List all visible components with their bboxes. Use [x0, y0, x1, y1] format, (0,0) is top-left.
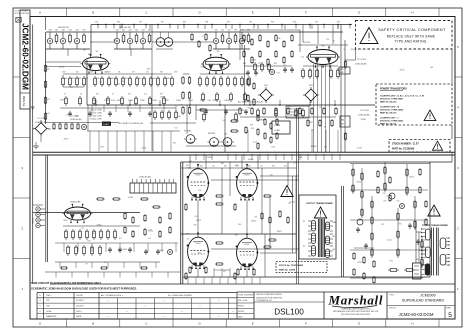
svg-text:CON4: CON4 [128, 100, 133, 102]
svg-text:C42: C42 [423, 221, 426, 223]
svg-text:C94: C94 [277, 73, 280, 75]
svg-text:C50: C50 [214, 30, 217, 32]
svg-text:R62: R62 [221, 163, 224, 165]
svg-text:R71: R71 [161, 22, 164, 24]
svg-text:REL: REL [340, 69, 343, 71]
svg-text:R35: R35 [251, 128, 254, 130]
svg-text:C33: C33 [68, 30, 71, 32]
svg-text:C13: C13 [117, 83, 120, 85]
svg-text:C67: C67 [99, 81, 102, 83]
svg-text:V44: V44 [288, 106, 291, 108]
svg-text:1K14: 1K14 [111, 100, 115, 102]
svg-text:C9: C9 [112, 94, 114, 96]
svg-text:x: x [145, 306, 146, 308]
svg-text:CMD: CMD [46, 295, 51, 297]
svg-text:470p6: 470p6 [350, 49, 355, 51]
svg-text:C66: C66 [121, 81, 124, 83]
svg-text:R15: R15 [96, 94, 99, 96]
svg-text:470p11: 470p11 [361, 119, 367, 121]
svg-text:V85: V85 [398, 224, 401, 226]
svg-text:E: E [252, 11, 254, 15]
svg-text:C55: C55 [212, 166, 215, 168]
svg-text:22n5: 22n5 [147, 69, 151, 71]
svg-text:BR2: BR2 [309, 85, 313, 87]
svg-text:PART No. GC180099: PART No. GC180099 [392, 147, 415, 150]
svg-text:TITLE: TITLE [389, 294, 395, 296]
svg-text:POWER TRANSISTORS: POWER TRANSISTORS [380, 88, 407, 91]
svg-text:R85: R85 [88, 54, 91, 56]
svg-text:THIS CIRCUIT IS FOR PARTS LIST: THIS CIRCUIT IS FOR PARTS LIST PURPOSES … [31, 281, 102, 285]
svg-text:C38: C38 [205, 22, 208, 24]
svg-text:C42: C42 [128, 30, 131, 32]
svg-text:x: x [127, 311, 128, 313]
svg-text:JK3: JK3 [224, 134, 227, 136]
svg-text:E: E [252, 322, 254, 326]
svg-text:R40: R40 [238, 224, 241, 226]
svg-text:R73: R73 [293, 22, 296, 24]
svg-text:10K29: 10K29 [251, 59, 256, 61]
svg-text:x: x [200, 306, 201, 308]
svg-text:2K230: 2K230 [207, 157, 212, 159]
svg-text:R = THROUGH PLATED: R = THROUGH PLATED [168, 294, 192, 297]
svg-text:B: B [92, 11, 94, 15]
svg-text:1n11: 1n11 [67, 246, 71, 248]
svg-text:68K19: 68K19 [60, 99, 65, 101]
svg-text:4n720: 4n720 [63, 139, 68, 141]
svg-text:C90: C90 [254, 217, 257, 219]
svg-text:F: F [305, 322, 307, 326]
svg-text:R17: R17 [160, 94, 163, 96]
svg-text:C10: C10 [193, 196, 196, 198]
svg-text:C55: C55 [247, 30, 250, 32]
svg-text:D57: D57 [223, 271, 226, 273]
svg-text:8203: 8203 [64, 220, 68, 222]
svg-text:DATE: DATE [76, 315, 82, 318]
svg-text:P2: P2 [303, 246, 305, 248]
svg-text:2K28: 2K28 [358, 262, 362, 264]
svg-text:ALL OTHER HOLES =: ALL OTHER HOLES = [101, 294, 124, 297]
svg-text:CON2: CON2 [104, 100, 109, 102]
svg-text:D71: D71 [70, 87, 73, 89]
svg-text:D98: D98 [100, 147, 103, 149]
svg-text:R60: R60 [83, 49, 86, 51]
svg-text:STOCK No. TXPW-00001: STOCK No. TXPW-00001 [380, 98, 404, 100]
svg-text:D16: D16 [430, 67, 433, 69]
svg-text:IF IN DOUBT ASK: IF IN DOUBT ASK [15, 12, 30, 15]
svg-text:CON7: CON7 [164, 100, 169, 102]
svg-text:R11: R11 [72, 78, 75, 80]
svg-text:82079: 82079 [357, 182, 362, 184]
svg-text:82079: 82079 [196, 220, 201, 222]
svg-text:C15: C15 [258, 63, 261, 65]
svg-text:V4 ECC83: V4 ECC83 [70, 202, 81, 204]
svg-text:C35: C35 [82, 30, 85, 32]
svg-text:D97: D97 [383, 193, 386, 195]
svg-text:4n794: 4n794 [400, 70, 405, 72]
svg-text:C8: C8 [80, 94, 82, 96]
svg-text:BAL: BAL [341, 119, 344, 122]
svg-text:P1: P1 [303, 221, 305, 223]
svg-text:CON9: CON9 [200, 100, 205, 102]
svg-text:CON3: CON3 [116, 100, 121, 102]
svg-text:JCM2-EL-BB: JCM2-EL-BB [139, 177, 151, 179]
svg-text:C18: C18 [396, 200, 399, 202]
svg-text:R2: R2 [48, 69, 50, 71]
svg-text:JCM2-60-02.DGM: JCM2-60-02.DGM [399, 312, 434, 317]
svg-text:82039: 82039 [308, 122, 313, 124]
svg-text:(JCM2-EL-4B): (JCM2-EL-4B) [70, 119, 82, 121]
svg-text:C12: C12 [81, 228, 84, 230]
svg-text:CON5: CON5 [140, 100, 145, 102]
svg-text:D75: D75 [187, 238, 190, 240]
svg-text:CON3-4 CON6: CON3-4 CON6 [90, 116, 102, 118]
svg-text:R95: R95 [194, 225, 197, 227]
svg-text:STOCK NUMBER : CLET: STOCK NUMBER : CLET [392, 144, 419, 146]
svg-text:DSL100: DSL100 [274, 308, 304, 317]
svg-text:D94: D94 [198, 190, 201, 192]
svg-text:SET: SET [341, 124, 344, 126]
svg-text:C80: C80 [208, 100, 211, 102]
svg-text:1K34: 1K34 [298, 157, 302, 159]
svg-text:D33: D33 [198, 253, 201, 255]
svg-text:F: F [305, 11, 307, 15]
svg-text:D49: D49 [223, 120, 226, 122]
svg-text:1M91: 1M91 [159, 250, 163, 252]
svg-text:C39: C39 [249, 22, 252, 24]
svg-text:H: H [411, 11, 413, 15]
svg-text:R90: R90 [200, 166, 203, 168]
svg-text:D15: D15 [309, 70, 312, 72]
svg-text:1M18: 1M18 [123, 249, 127, 251]
svg-text:R54: R54 [195, 216, 198, 218]
svg-text:14/11/97: 14/11/97 [76, 306, 85, 308]
svg-text:V2: V2 [343, 49, 345, 51]
svg-text:820: 820 [76, 72, 79, 74]
svg-text:V92: V92 [381, 224, 384, 226]
svg-text:C54: C54 [240, 30, 243, 32]
svg-text:x: x [164, 316, 165, 318]
svg-text:C80: C80 [178, 116, 181, 118]
svg-text:STOCK No. TXOP-00088: STOCK No. TXOP-00088 [279, 265, 304, 267]
svg-text:470p12: 470p12 [200, 66, 206, 68]
svg-text:C20: C20 [326, 39, 329, 41]
svg-text:R92: R92 [248, 166, 251, 168]
svg-text:R17: R17 [119, 238, 122, 240]
svg-text:15/5/98: 15/5/98 [76, 295, 84, 297]
svg-text:COUNTRY 100V~: M: COUNTRY 100V~: M [380, 107, 399, 109]
svg-text:C57: C57 [260, 166, 263, 168]
svg-text:H: H [411, 322, 413, 326]
svg-text:CON2: CON2 [128, 197, 133, 199]
svg-text:TOTAL THICKNESS: TOTAL THICKNESS [238, 294, 254, 297]
svg-text:R36: R36 [87, 240, 90, 242]
svg-text:CON6: CON6 [152, 100, 157, 102]
svg-text:TO CON.1: TO CON.1 [357, 59, 367, 61]
svg-text:R3: R3 [48, 99, 50, 101]
svg-text:2K2: 2K2 [146, 72, 149, 74]
svg-text:C51: C51 [221, 30, 224, 32]
svg-text:x: x [219, 300, 220, 302]
svg-text:R92: R92 [390, 260, 393, 262]
svg-text:UNLESS OTHERWISE STATED: UNLESS OTHERWISE STATED [256, 293, 283, 296]
svg-text:C7: C7 [64, 94, 66, 96]
svg-text:ALL 4B2B7 2K (JCM2-EL)-4B: ALL 4B2B7 2K (JCM2-EL)-4B [119, 122, 144, 125]
svg-text:D17: D17 [283, 65, 286, 67]
svg-text:C44: C44 [141, 30, 144, 32]
svg-text:R4: R4 [65, 78, 67, 80]
svg-text:x: x [182, 311, 183, 313]
svg-text:x: x [233, 311, 234, 313]
svg-text:5: 5 [448, 312, 452, 319]
svg-text:CON10: CON10 [212, 100, 218, 102]
svg-text:C40: C40 [315, 22, 318, 24]
svg-text:D77: D77 [149, 229, 152, 231]
svg-text:CON1: CON1 [92, 100, 97, 102]
svg-text:R54: R54 [173, 143, 176, 145]
svg-text:82013: 82013 [160, 96, 165, 98]
svg-text:10K64: 10K64 [96, 225, 101, 227]
svg-text:HT1: HT1 [183, 22, 186, 24]
svg-text:FX SEND: FX SEND [184, 131, 192, 133]
svg-text:C32: C32 [61, 30, 64, 32]
svg-text:R16: R16 [128, 94, 131, 96]
svg-text:V46: V46 [270, 175, 273, 177]
svg-text:C87: C87 [288, 203, 291, 205]
svg-text:DWG.No.: DWG.No. [22, 96, 26, 107]
svg-text:R38: R38 [277, 38, 280, 40]
svg-text:C74: C74 [301, 56, 304, 58]
svg-text:C37: C37 [139, 22, 142, 24]
svg-text:BR1: BR1 [264, 85, 268, 87]
svg-text:R94: R94 [284, 166, 287, 168]
svg-text:1/8/97: 1/8/97 [76, 311, 82, 313]
svg-text:CON1-2 CON6: CON1-2 CON6 [90, 110, 102, 112]
svg-text:V3: V3 [324, 126, 326, 128]
svg-text:CIN: CIN [46, 306, 50, 308]
svg-text:C52: C52 [319, 107, 322, 109]
svg-text:FINISH: FINISH [238, 306, 244, 308]
svg-text:D29: D29 [421, 265, 424, 267]
svg-text:DIAMETER: DIAMETER [46, 315, 57, 318]
svg-text:R61 10K 5W: R61 10K 5W [120, 27, 131, 29]
svg-text:PART No. DE-100: PART No. DE-100 [380, 100, 397, 103]
svg-text:29/3/97: 29/3/97 [238, 311, 244, 313]
svg-text:C36: C36 [95, 22, 98, 24]
svg-text:JCM2-63-BB: JCM2-63-BB [355, 64, 367, 66]
svg-text:R9: R9 [85, 263, 87, 265]
svg-text:REPLACE ONLY WITH SAME: REPLACE ONLY WITH SAME [387, 34, 436, 38]
svg-text:C40: C40 [115, 30, 118, 32]
svg-text:R6: R6 [92, 233, 94, 235]
svg-text:82061: 82061 [277, 231, 282, 233]
svg-text:© MARSHALL AMPLIFICATION PLC: © MARSHALL AMPLIFICATION PLC [340, 307, 371, 310]
svg-text:B: B [92, 322, 94, 326]
svg-text:R72: R72 [227, 22, 230, 24]
svg-text:13/10/97: 13/10/97 [76, 300, 85, 302]
svg-text:R2: R2 [333, 41, 335, 43]
svg-text:470p85: 470p85 [248, 159, 254, 161]
svg-text:x: x [219, 316, 220, 318]
svg-text:C76: C76 [148, 238, 151, 240]
svg-text:C59: C59 [383, 201, 386, 203]
svg-text:2K251: 2K251 [409, 177, 414, 179]
svg-text:HT2: HT2 [271, 22, 274, 24]
svg-text:V41: V41 [179, 104, 182, 106]
svg-text:SUPERLEAD STANDARD: SUPERLEAD STANDARD [402, 299, 445, 303]
svg-text:Marshall: Marshall [328, 293, 383, 308]
svg-text:TOLERANCES ±0.5: TOLERANCES ±0.5 [256, 299, 272, 302]
svg-text:R28: R28 [250, 125, 253, 127]
svg-text:OUTPUT TRANSFORMER: OUTPUT TRANSFORMER [306, 202, 333, 205]
svg-text:C2: C2 [201, 36, 203, 38]
svg-text:CON2-3 CON6: CON2-3 CON6 [90, 113, 102, 115]
svg-text:RETURN: RETURN [208, 133, 216, 135]
svg-text:R93: R93 [272, 166, 275, 168]
svg-text:C31: C31 [55, 30, 58, 32]
svg-text:R7: R7 [86, 78, 88, 80]
svg-text:A: A [39, 11, 41, 15]
svg-text:R9: R9 [79, 78, 81, 80]
svg-text:R87: R87 [247, 107, 250, 109]
svg-text:JCM2-63-BB: JCM2-63-BB [358, 115, 370, 117]
svg-text:C45: C45 [148, 30, 151, 32]
svg-text:R60 10K 5W: R60 10K 5W [58, 27, 69, 29]
svg-text:R77: R77 [114, 40, 117, 42]
svg-text:R70: R70 [117, 22, 120, 24]
svg-text:10K1: 10K1 [416, 259, 420, 261]
svg-text:R30 100K: R30 100K [303, 42, 311, 44]
svg-text:TEL 01908 375411 FAX 01908 37: TEL 01908 375411 FAX 01908 376118 [341, 313, 370, 316]
svg-text:FIRST AVENUE, BLETCHLEY, MILTO: FIRST AVENUE, BLETCHLEY, MILTON KEYNES, … [333, 310, 379, 313]
svg-text:D58: D58 [114, 78, 117, 80]
svg-text:C56: C56 [236, 166, 239, 168]
svg-text:MIN 1.6 MM: MIN 1.6 MM [238, 300, 248, 302]
svg-text:SMP: SMP [340, 72, 343, 74]
svg-text:TO CON.1: TO CON.1 [360, 110, 370, 112]
svg-text:C30: C30 [48, 30, 51, 32]
svg-text:C53: C53 [234, 30, 237, 32]
svg-text:A: A [39, 322, 41, 326]
svg-text:CLNE: CLNE [46, 311, 52, 313]
svg-text:C52: C52 [227, 30, 230, 32]
svg-text:C50: C50 [174, 127, 177, 129]
svg-text:C41: C41 [122, 30, 125, 32]
svg-text:C10: C10 [144, 94, 147, 96]
svg-text:C79: C79 [66, 115, 69, 117]
svg-text:STOCK No. TXPW-00002: STOCK No. TXPW-00002 [380, 110, 404, 112]
svg-text:PART No. C9878: PART No. C9878 [279, 268, 296, 271]
svg-text:CON4-5 CON6: CON4-5 CON6 [90, 119, 102, 121]
svg-text:1n90: 1n90 [271, 146, 275, 148]
svg-text:0.1u9: 0.1u9 [253, 142, 257, 144]
svg-text:CON8: CON8 [188, 100, 193, 102]
svg-text:V90: V90 [189, 161, 192, 163]
svg-text:COUNTRY 120V~: J: COUNTRY 120V~: J [380, 118, 399, 120]
svg-text:x: x [108, 300, 109, 302]
svg-text:V85: V85 [103, 262, 106, 264]
svg-text:R25: R25 [274, 63, 277, 65]
svg-text:x: x [108, 316, 109, 318]
svg-text:SHEET: SHEET [446, 308, 451, 310]
svg-text:ALL 4B2B7 2K (JCM2-EL)-4B: ALL 4B2B7 2K (JCM2-EL)-4B [238, 101, 264, 104]
svg-text:0.1u37: 0.1u37 [357, 147, 362, 149]
svg-text:D98: D98 [204, 61, 207, 63]
svg-text:DRG No.: DRG No. [389, 308, 397, 310]
svg-text:SAFETY CRITICAL COMPONENT: SAFETY CRITICAL COMPONENT [378, 28, 446, 32]
svg-text:JCM2000: JCM2000 [420, 293, 435, 297]
svg-text:PART No. DE-170: PART No. DE-170 [380, 112, 397, 115]
svg-text:V50: V50 [310, 61, 313, 63]
svg-text:C43: C43 [135, 30, 138, 32]
svg-text:C53: C53 [386, 196, 389, 198]
svg-text:R91: R91 [224, 166, 227, 168]
svg-text:R74: R74 [337, 22, 340, 24]
svg-text:CON6: CON6 [33, 217, 35, 224]
svg-text:CON11: CON11 [224, 100, 230, 102]
svg-text:V31: V31 [47, 113, 50, 115]
svg-text:C34: C34 [75, 30, 78, 32]
svg-text:PART No. DE-171: PART No. DE-171 [380, 122, 397, 125]
svg-text:R6: R6 [223, 67, 225, 69]
svg-text:C88: C88 [75, 116, 78, 118]
svg-text:L-CAN: L-CAN [274, 129, 280, 132]
svg-text:JCM2-60-02.DGM: JCM2-60-02.DGM [20, 23, 29, 90]
svg-text:2K220: 2K220 [251, 221, 256, 223]
svg-text:C15: C15 [357, 277, 360, 279]
svg-text:SCHEMATIC JCM2-60-02.DGM SHOUL: SCHEMATIC JCM2-60-02.DGM SHOULD BE USED … [31, 286, 137, 290]
svg-text:CON8: CON8 [176, 100, 181, 102]
svg-text:0.1u21: 0.1u21 [387, 240, 392, 242]
svg-text:TYPE AND RATING.: TYPE AND RATING. [394, 40, 427, 44]
svg-text:x: x [164, 300, 165, 302]
svg-text:COUNTRY 220V~: A, B, C, D, G,: COUNTRY 220V~: A, B, C, D, G, H, K, T, L… [380, 94, 424, 97]
svg-text:R5: R5 [62, 76, 64, 78]
